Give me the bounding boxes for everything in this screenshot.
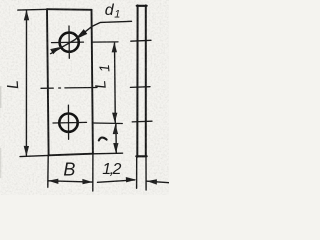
extension line top (for L) bbox=[18, 8, 48, 11]
arrowhead l top bbox=[113, 124, 118, 134]
arrowhead B left bbox=[48, 179, 58, 184]
scan smudge left edge lower bbox=[0, 148, 1, 178]
arrowhead B right bbox=[82, 179, 92, 184]
side view centerline tick hole2 bbox=[132, 120, 152, 123]
side view centerline tick hole1 bbox=[131, 39, 151, 42]
arrowhead L top bbox=[24, 10, 29, 21]
side view extension right (for 1,2) bbox=[145, 157, 147, 190]
side view top edge bbox=[137, 5, 147, 7]
extension line hole2 center (for L1 and l) bbox=[93, 122, 122, 125]
arrowhead L1 top bbox=[112, 42, 117, 52]
extension line B right bbox=[92, 154, 94, 191]
mid centerline dot bbox=[59, 87, 61, 89]
side view centerline tick middle bbox=[130, 86, 150, 89]
side view extension left (for 1,2) bbox=[136, 158, 138, 189]
dimension line L1 bbox=[114, 42, 117, 122]
hole 1 vertical centerline bbox=[68, 26, 70, 58]
dimension line 1,2 right stub bbox=[147, 181, 169, 183]
side view right edge bbox=[145, 5, 147, 156]
side view bottom edge bbox=[136, 155, 146, 157]
hole 1 horizontal centerline bbox=[52, 41, 84, 44]
dimension line L bbox=[25, 10, 27, 156]
dimension line 1,2 left part bbox=[98, 180, 135, 182]
hole 2 horizontal centerline bbox=[53, 121, 87, 124]
arrowhead L1 bottom bbox=[112, 113, 117, 123]
plate right edge bbox=[92, 10, 93, 154]
hole 1 circle bbox=[60, 33, 79, 52]
dimension line B bbox=[48, 181, 92, 182]
arrowhead l bottom bbox=[113, 143, 118, 153]
side view left edge bbox=[136, 5, 138, 156]
arrowhead 1,2 pointing right bbox=[126, 177, 136, 182]
mid symmetry centerline dash-dot bbox=[41, 87, 53, 89]
plate left edge bbox=[47, 9, 49, 155]
extension line hole1 center (for L1) bbox=[92, 41, 118, 43]
leader arrowhead at circle upper-right bbox=[75, 29, 88, 40]
arrowhead L bottom bbox=[24, 146, 29, 156]
arrowhead 1,2 pointing left bbox=[147, 179, 157, 184]
leader arrowhead at circle lower-left bbox=[50, 47, 60, 54]
label l bbox=[99, 138, 107, 141]
leader line d1 bbox=[51, 21, 132, 53]
plate bottom edge bbox=[49, 154, 93, 156]
scan smudge left edge bbox=[0, 86, 1, 108]
mid centerline long dash bbox=[65, 87, 97, 89]
scan grain overlay bbox=[0, 0, 169, 195]
plate top edge bbox=[47, 8, 92, 11]
extension line bottom-left (for L) bbox=[20, 155, 49, 156]
hole 2 circle bbox=[59, 114, 77, 132]
extension line bottom-right (for l) bbox=[93, 152, 123, 155]
extension line B left bbox=[47, 156, 49, 187]
dimension line l bbox=[115, 124, 117, 153]
hole 2 vertical centerline bbox=[67, 105, 69, 139]
